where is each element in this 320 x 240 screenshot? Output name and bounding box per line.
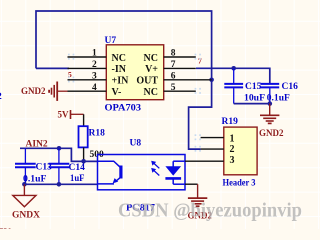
svg-text:5V: 5V [58,110,70,120]
capacitor C15 [224,68,243,103]
U7 pin 5 [164,90,196,92]
U7 pin names right column [136,53,158,98]
svg-text:NC: NC [144,53,158,64]
svg-text:GND2: GND2 [259,128,284,138]
svg-text:V+: V+ [145,64,158,75]
svg-text:-IN: -IN [112,64,127,75]
U7 pin 2 [68,67,107,69]
svg-text:5V: 5V [0,228,11,229]
U7 pin 1 [68,56,107,58]
svg-text:NC: NC [144,87,158,98]
wire capacitor bottoms [234,103,270,105]
svg-text:C14: C14 [69,163,86,173]
power 5V symbol [71,110,84,119]
node junction AIN2/C14 [57,146,62,151]
wire to U7 pin2 [36,67,69,69]
node junction C16 bottom [268,101,273,106]
U7 pin numbers right [171,49,176,93]
svg-text:6: 6 [171,71,176,81]
wire ground rail under C13 C14 [24,183,97,185]
svg-text:2: 2 [92,60,97,70]
capacitor C14 [49,148,70,184]
wire R18 bottom [83,147,85,161]
op-amp U7 body [106,45,163,100]
U7 pin 7 [164,67,196,69]
header pin 2 [201,148,224,150]
header pin numbers [230,133,235,166]
U7 pin 3 [68,79,107,81]
svg-text:GND2: GND2 [21,86,46,96]
svg-text:1uF: 1uF [70,174,85,184]
wire opto cathode to ground [185,183,198,185]
U7 pin 6 [164,79,212,81]
svg-text:1: 1 [92,49,97,59]
svg-text:C16: C16 [282,82,299,92]
svg-text:NC: NC [112,53,126,64]
svg-text:OPA703: OPA703 [105,103,142,113]
header pin 1 [201,137,224,139]
optocoupler U8 phototransistor [98,161,121,184]
header pin 3 [185,160,224,162]
svg-text:2: 2 [230,144,235,155]
ground GND2 left at U7 pin4 [49,82,67,101]
svg-text:4: 4 [92,83,97,93]
ground GND2 bottom [188,184,207,206]
svg-text:U8: U8 [130,138,142,148]
svg-text:5: 5 [171,83,176,93]
ground GND2 top right [260,104,279,124]
svg-text:R18: R18 [89,129,106,139]
U7 pin 4 [68,90,107,92]
optocoupler U8 light arrows [151,161,159,176]
optocoupler U8 LED [165,161,185,184]
wire AIN2 horizontal [20,148,98,161]
svg-text:V-: V- [112,87,122,98]
node junction pin6 [209,78,214,83]
node junction R18/opto [81,159,86,164]
wire U7 pin7 to capacitors [196,68,270,83]
svg-text:GNDX: GNDX [12,210,40,220]
resistor R18 body [79,126,88,147]
svg-text:7: 7 [171,60,176,70]
U7 pin names left column [112,53,130,98]
ground GNDX symbol [13,184,36,207]
optocoupler U8 box [98,155,186,190]
svg-text:OUT: OUT [136,76,158,87]
capacitor C13 [15,148,36,184]
svg-text:0.1uF: 0.1uF [23,174,47,184]
svg-text:CSDN @biyezuopinvip: CSDN @biyezuopinvip [118,199,302,221]
svg-text:7: 7 [198,57,202,66]
wire feedback loop from U7 pin2 up over to output column [36,11,212,149]
svg-text:1: 1 [230,133,235,144]
svg-text:U7: U7 [105,36,117,46]
svg-text:+IN: +IN [112,76,130,87]
svg-text:2: 2 [0,92,2,102]
svg-text:8: 8 [171,49,176,59]
header body Header 3 [224,127,257,175]
wire 5V to R18 [83,114,85,126]
capacitor C16 [260,83,279,103]
svg-text:3: 3 [230,155,235,166]
svg-text:3: 3 [92,71,97,81]
wire R18 node to opto [71,160,97,162]
node junction C13/GNDX [22,182,27,187]
U7 pin 8 [164,56,196,58]
node junction C15 top [231,66,236,71]
svg-text:10uF: 10uF [244,93,265,103]
node junction C14 bottom [57,182,62,187]
svg-text:C15: C15 [245,82,262,92]
svg-text:R19: R19 [222,117,239,127]
svg-text:Header 3: Header 3 [223,178,256,188]
endpoint markers [68,54,201,152]
U7 pin numbers left [92,49,97,93]
